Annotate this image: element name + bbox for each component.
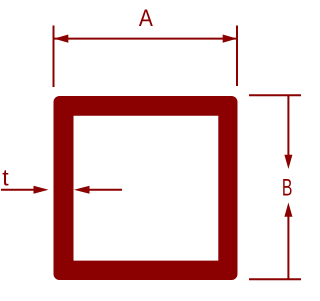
svg-text:t: t xyxy=(2,165,9,191)
svg-text:A: A xyxy=(139,5,153,32)
svg-text:B: B xyxy=(282,174,293,201)
